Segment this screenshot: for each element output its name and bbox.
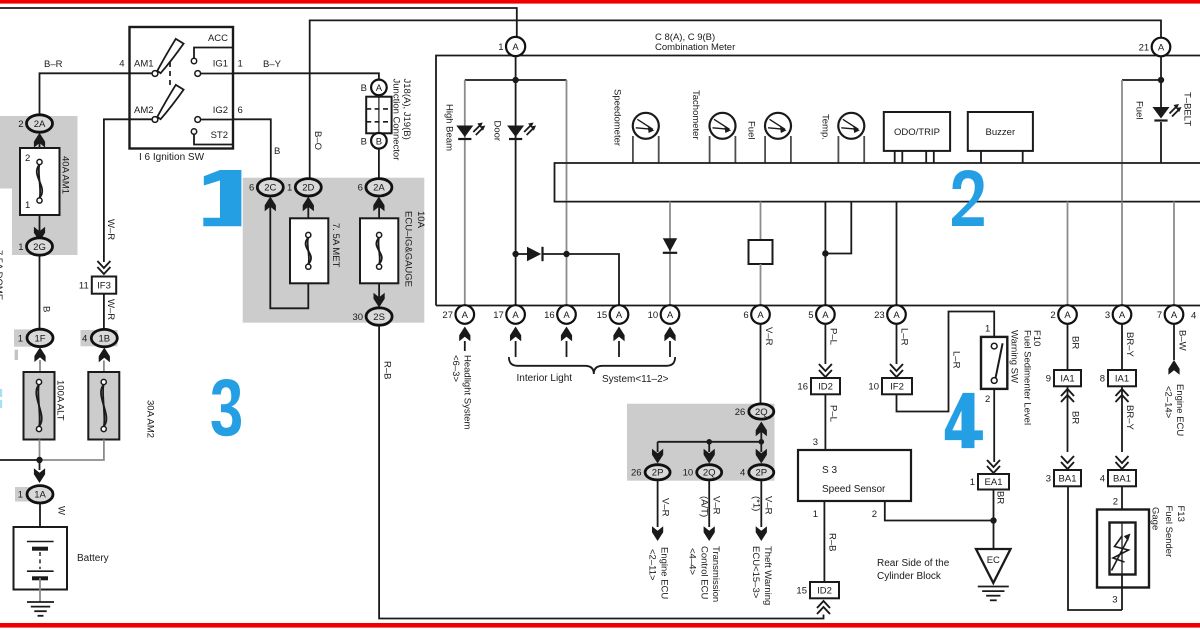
svg-text:Engine ECU: Engine ECU	[1174, 384, 1185, 436]
svg-text:Rear Side of the: Rear Side of the	[877, 558, 950, 569]
svg-text:10: 10	[683, 468, 694, 479]
label W-R (lower)	[105, 299, 116, 320]
svg-text:A: A	[376, 83, 383, 94]
svg-text:21: 21	[1139, 43, 1150, 54]
ignition ACC contact	[191, 48, 233, 64]
meter pin 10 circle	[648, 305, 680, 324]
shading behind 1F label	[14, 329, 31, 346]
wire pin10 drop	[669, 202, 671, 307]
stray gray mark	[15, 350, 18, 360]
ODO/TRIP pins	[895, 151, 934, 163]
svg-text:10: 10	[648, 310, 659, 321]
junction IF2 box (10)	[868, 378, 912, 394]
label W-R (upper)	[105, 219, 116, 240]
EC ground triangle	[976, 549, 1011, 583]
arrow into 2C	[265, 197, 276, 212]
label V-R (A/T)	[699, 496, 722, 517]
svg-text:A: A	[1119, 310, 1126, 321]
svg-text:I 6 Ignition SW: I 6 Ignition SW	[139, 152, 205, 163]
arrow into 2P (26)	[652, 449, 663, 464]
svg-text:Speed Sensor: Speed Sensor	[822, 484, 886, 495]
illumination resistor box (pin6)	[749, 240, 773, 264]
svg-text:9: 9	[1046, 374, 1051, 385]
T-BELT warning LED	[1153, 104, 1182, 121]
svg-text:2Q: 2Q	[755, 407, 768, 418]
svg-text:1: 1	[813, 509, 818, 520]
battery box	[14, 527, 68, 590]
battery ground symbol	[27, 602, 54, 616]
chevrons into IF3	[97, 261, 110, 274]
wire 1F to fuse 100A	[39, 360, 41, 372]
meter pin 16 circle	[544, 305, 576, 324]
label Engine ECU <2-11>	[647, 547, 670, 599]
junction dot branch right	[759, 439, 765, 445]
speedometer gauge	[633, 113, 659, 139]
svg-text:Fuel Sender: Fuel Sender	[1163, 506, 1174, 558]
label B (2G-1F)	[41, 306, 52, 312]
label 7.5A MET	[330, 223, 341, 268]
svg-text:Fuel Sedimenter Level: Fuel Sedimenter Level	[1022, 330, 1033, 425]
wire EA1 to EC node	[993, 490, 995, 550]
svg-text:T–BELT: T–BELT	[1182, 92, 1193, 126]
svg-text:2D: 2D	[302, 183, 314, 194]
wire fuse 10A to 2S	[378, 283, 380, 297]
svg-text:Theft Warning: Theft Warning	[762, 546, 773, 605]
junction node above 1A	[36, 457, 42, 463]
svg-text:BR: BR	[995, 491, 1006, 504]
svg-text:(A/T): (A/T)	[699, 496, 710, 517]
ignition label IG1	[213, 59, 228, 70]
svg-text:1: 1	[18, 242, 23, 253]
svg-text:Interior Light: Interior Light	[517, 373, 573, 384]
clipped pin 4 label	[1191, 311, 1196, 322]
svg-text:BR–Y: BR–Y	[1124, 405, 1135, 430]
svg-text:BA1: BA1	[1113, 474, 1131, 485]
wire node to 1A	[39, 460, 41, 470]
battery dashed link	[39, 552, 41, 569]
svg-text:System<11–2>: System<11–2>	[602, 374, 669, 385]
wire S3 pin2 to EC node	[885, 501, 994, 521]
svg-text:B: B	[41, 306, 52, 312]
arrow out of pin27	[459, 327, 470, 352]
svg-text:8: 8	[1100, 374, 1105, 385]
meter pin 17 circle	[493, 305, 525, 324]
svg-text:W: W	[56, 506, 67, 515]
meter pin 7 circle	[1157, 305, 1183, 324]
label 100A ALT	[55, 380, 66, 421]
junction dot pin1 bus	[512, 77, 518, 83]
svg-text:A: A	[563, 310, 570, 321]
wire tachometer legs	[710, 136, 736, 163]
svg-text:Fuel: Fuel	[1134, 101, 1145, 119]
blue step number 3	[211, 379, 241, 436]
wire B from off-page to meter pin 1	[0, 8, 517, 37]
wire T-BELT lamp lower	[1160, 122, 1162, 163]
wire pin5 stub	[825, 202, 851, 254]
svg-text:4: 4	[1191, 311, 1196, 322]
label Speedometer	[612, 89, 623, 146]
wire pin6 drop upper	[760, 202, 762, 241]
svg-text:4: 4	[82, 334, 87, 345]
connector 2G	[18, 238, 52, 255]
svg-text:7: 7	[1157, 310, 1162, 321]
arrow into 1A	[34, 468, 45, 483]
junction dot EC node	[990, 517, 996, 523]
svg-text:Temp.: Temp.	[820, 114, 831, 140]
wire battery to ground	[39, 578, 41, 602]
interior light brace	[509, 357, 675, 374]
svg-text:Warning SW: Warning SW	[1009, 330, 1020, 383]
svg-text:26: 26	[735, 407, 746, 418]
ignition AM1 contact	[152, 71, 158, 77]
label Engine ECU <2-14>	[1163, 384, 1186, 436]
chevrons into BA1 3	[1061, 456, 1074, 469]
ignition AM2 lever	[157, 85, 183, 119]
junction EA1 box (1)	[970, 474, 1009, 490]
decorative top red border	[0, 0, 1200, 4]
svg-text:7.5A DOME: 7.5A DOME	[0, 250, 4, 300]
chevrons out IA1 8	[1116, 389, 1129, 402]
svg-text:7. 5A MET: 7. 5A MET	[330, 223, 341, 268]
chevrons into ID2 16	[819, 364, 832, 377]
wire BA1 3 to fuel sender	[1068, 486, 1122, 610]
junction ID2 box (15)	[796, 582, 839, 598]
wire 2Q to branch bus	[760, 427, 762, 442]
svg-text:1: 1	[498, 42, 503, 53]
label T-BELT	[1182, 92, 1193, 126]
label System <11-2>	[602, 374, 669, 385]
label R-B (speed)	[827, 533, 838, 551]
svg-text:(*1): (*1)	[751, 496, 762, 511]
wire IA1 to BA1 (BR-Y)	[1121, 386, 1123, 452]
label P-L (upper)	[828, 328, 839, 345]
junction IA1 box (9)	[1046, 370, 1081, 386]
svg-text:A: A	[616, 310, 623, 321]
fuse-block shading (ECU-IG)	[243, 178, 425, 323]
ignition ST2 contact	[191, 129, 233, 145]
arrow into 2A (ECU-IG)	[373, 197, 384, 212]
svg-text:B: B	[376, 136, 382, 147]
connector 1B	[82, 329, 117, 346]
svg-text:<2–11>: <2–11>	[647, 549, 658, 581]
meter pin 27 circle	[442, 305, 474, 324]
svg-text:16: 16	[797, 382, 808, 393]
wire B from IG2 to 2C	[233, 119, 271, 179]
svg-text:2Q: 2Q	[703, 468, 716, 479]
label BR-Y (lower)	[1124, 405, 1135, 430]
junction ID2 box (16)	[797, 378, 840, 394]
F10 pin 1 number	[985, 324, 990, 335]
chevrons into IF2 10	[890, 364, 903, 377]
svg-text:3: 3	[813, 437, 818, 448]
wire 2A to fuse 40A	[39, 138, 41, 148]
svg-text:B: B	[274, 146, 280, 157]
svg-text:Headlight System: Headlight System	[462, 355, 473, 430]
connector 1F	[18, 329, 53, 346]
S3 pin 1 number	[813, 509, 818, 520]
wire speedometer legs	[633, 136, 659, 163]
chevrons into ID2 15	[817, 601, 830, 614]
meter pin 21 circle	[1139, 38, 1171, 57]
temp gauge	[838, 113, 864, 139]
svg-text:IG1: IG1	[213, 59, 228, 70]
junction dot pin5	[822, 250, 828, 256]
junction IF3 box	[79, 277, 116, 294]
label BR (upper)	[1070, 336, 1081, 349]
F13 fuel sender inner box	[1110, 523, 1136, 575]
F13 sender element	[1112, 523, 1131, 575]
junction dot branch mid	[706, 439, 712, 445]
wire pin3 drop	[1121, 202, 1123, 307]
battery plate long bottom	[27, 570, 54, 572]
chevrons into EA1	[987, 460, 1000, 473]
junction BA1 box (4)	[1100, 470, 1136, 486]
svg-text:2: 2	[1113, 497, 1118, 508]
svg-text:2C: 2C	[264, 183, 276, 194]
combination meter outline	[436, 56, 1200, 306]
svg-text:Engine ECU: Engine ECU	[659, 547, 670, 599]
diode (door/15A)	[527, 247, 543, 261]
svg-text:1: 1	[18, 333, 23, 344]
label 30A AM2	[145, 400, 156, 438]
junction connector J18/J19 bottom pin B	[361, 133, 387, 149]
wire IF3 to 1B	[103, 294, 105, 330]
connector 2D	[287, 179, 321, 196]
arrow out of pin17	[510, 327, 521, 358]
svg-text:W–R: W–R	[105, 219, 116, 240]
svg-text:Fuel: Fuel	[746, 121, 757, 139]
svg-text:W–R: W–R	[105, 299, 116, 320]
F10 pin 2 number	[985, 394, 990, 405]
svg-text:27: 27	[442, 310, 453, 321]
junction IA1 box (8)	[1100, 370, 1136, 386]
svg-text:1B: 1B	[98, 334, 110, 345]
arrow into 1F	[34, 347, 45, 362]
svg-text:EA1: EA1	[985, 477, 1003, 488]
wire pin3 through bar	[1121, 164, 1123, 201]
wire junction connector to 2A	[378, 149, 380, 179]
svg-text:IF2: IF2	[890, 382, 904, 393]
junction dot pin21 bus	[1158, 77, 1164, 83]
arrow into 1B	[99, 348, 110, 363]
meter lamp bus wire	[465, 79, 567, 81]
wire pin7 drop	[1173, 202, 1175, 307]
wire fuel lamp line	[1121, 80, 1123, 163]
svg-text:AM2: AM2	[134, 105, 154, 116]
wire W-R from AM2 down	[104, 119, 152, 262]
connector 2A (ECU-IG fuse)	[358, 179, 392, 196]
svg-text:4: 4	[740, 468, 745, 479]
label 40A AM1	[60, 156, 71, 194]
svg-text:2: 2	[985, 394, 990, 405]
svg-text:Gage: Gage	[1150, 507, 1161, 530]
ignition label AM2	[134, 105, 154, 116]
ignition label IG2	[213, 105, 228, 116]
svg-text:4: 4	[1100, 474, 1105, 485]
shading behind 1B label	[81, 330, 118, 346]
svg-text:L–R: L–R	[951, 351, 962, 369]
label Rear Side of the Cylinder Block	[877, 558, 950, 582]
svg-text:<6–3>: <6–3>	[450, 355, 461, 382]
label R-B (2S)	[382, 361, 393, 379]
svg-text:Door: Door	[492, 121, 503, 142]
svg-text:5: 5	[808, 310, 813, 321]
wire temp gauge legs	[838, 136, 864, 163]
arrow out of pin15	[613, 327, 624, 358]
wire BA1 4 to F13	[1121, 486, 1123, 522]
label B (2C wire)	[274, 146, 280, 157]
svg-text:2: 2	[18, 119, 23, 130]
svg-text:2A: 2A	[373, 183, 385, 194]
svg-text:IA1: IA1	[1115, 374, 1129, 385]
door lamp junction dot	[512, 251, 518, 257]
svg-text:Speedometer: Speedometer	[612, 89, 623, 146]
svg-text:B–O: B–O	[312, 131, 323, 150]
instrument panel bus bar	[555, 163, 1200, 202]
label B-Y	[263, 59, 282, 70]
svg-text:A: A	[512, 310, 519, 321]
arrow into 2Q (10)	[704, 449, 715, 464]
label S 3 Speed Sensor	[822, 465, 886, 495]
label BR (EA1)	[995, 491, 1006, 504]
wire 2G to 1F	[39, 255, 41, 329]
svg-text:2A: 2A	[34, 119, 46, 130]
wire F13 to node	[1121, 575, 1123, 611]
battery plate short bottom	[32, 576, 48, 580]
fuse 7.5A MET box	[290, 218, 328, 283]
wire pin6 drop lower	[760, 264, 762, 306]
svg-text:B: B	[361, 137, 367, 148]
fuse 7.5A MET element	[306, 232, 311, 269]
svg-text:ST2: ST2	[211, 130, 228, 141]
chevrons into BA1 4	[1116, 456, 1129, 469]
arrow into 2G	[34, 227, 45, 242]
svg-text:Combination Meter: Combination Meter	[655, 42, 735, 53]
wire B-R from 2A to AM1	[40, 73, 153, 114]
label F10 Fuel Sedimenter Level Warning SW	[1009, 330, 1043, 425]
svg-text:A: A	[512, 42, 519, 53]
svg-text:R–B: R–B	[827, 533, 838, 551]
decorative bottom red border	[0, 623, 1200, 628]
fuse-block shading (top-left)	[0, 116, 78, 255]
svg-text:J18(A), J19(B): J18(A), J19(B)	[401, 79, 412, 140]
svg-text:1: 1	[238, 59, 243, 70]
svg-text:A: A	[1171, 310, 1178, 321]
svg-text:30: 30	[353, 312, 364, 323]
label Door	[492, 121, 503, 142]
wire from fuse 2D to meter pin 21	[310, 20, 1161, 178]
ignition AM2 contact	[152, 117, 158, 123]
svg-text:6: 6	[358, 183, 363, 194]
fuse 30A AM2 element	[101, 379, 106, 431]
meter pin 1 circle	[498, 37, 525, 56]
wire pin5 drop	[824, 202, 826, 307]
wire 2P to Theft Warning ECU	[760, 481, 762, 528]
svg-text:BR: BR	[1070, 336, 1081, 349]
caption I 6 Ignition SW	[139, 152, 205, 163]
clipped cyan marks at left edge	[0, 389, 2, 408]
svg-text:B–Y: B–Y	[263, 59, 282, 70]
connector 2C	[249, 179, 283, 196]
label P-L (lower)	[828, 405, 839, 422]
wire door lamp	[515, 80, 517, 306]
pin number 4 (AM1)	[119, 59, 124, 70]
junction dot diode/pin16	[563, 251, 569, 257]
wire 2D to fuse MET	[307, 202, 309, 219]
blue step number 2	[952, 170, 984, 226]
wire fuse 100A to node	[39, 440, 41, 461]
connector 2P (26)	[631, 465, 670, 480]
label L-R (to switch)	[951, 351, 962, 369]
svg-text:23: 23	[874, 310, 885, 321]
svg-text:10A: 10A	[415, 211, 426, 229]
svg-text:2P: 2P	[755, 468, 767, 479]
svg-text:1: 1	[18, 490, 23, 501]
fuel gauge	[765, 113, 791, 139]
wire fuse to 2G	[39, 215, 41, 231]
wire ID2 to S3	[824, 394, 826, 450]
shading behind 1A label	[15, 487, 31, 502]
wire high beam lamp	[464, 80, 466, 306]
svg-text:P–L: P–L	[828, 328, 839, 345]
wire fuel gauge legs	[765, 136, 791, 163]
fuse 30A AM2 box	[88, 372, 119, 440]
S3 pin 2 number	[872, 509, 877, 520]
svg-text:4: 4	[119, 59, 124, 70]
wire B-Y from IG1 to junction connector	[233, 73, 379, 79]
fuse 40A AM1 element	[37, 159, 42, 203]
svg-text:17: 17	[493, 310, 504, 321]
fuse 40A AM1 box	[20, 148, 60, 215]
F13 pin 3 number	[1112, 595, 1117, 606]
wire branch to 2P left	[657, 442, 659, 452]
label V-R (engine)	[660, 498, 671, 517]
svg-text:IA1: IA1	[1060, 374, 1074, 385]
svg-text:10: 10	[868, 382, 879, 393]
fuse 100A ALT element	[36, 379, 41, 431]
svg-text:2S: 2S	[373, 312, 385, 323]
wire 2A to fuse 10A	[378, 202, 380, 219]
wire pin16 through bar	[566, 164, 568, 201]
high beam LED	[456, 123, 485, 140]
F13 fuel sender outer box	[1097, 510, 1149, 588]
ignition label AM1	[134, 59, 154, 70]
junction connector J18/J19 box	[366, 97, 391, 134]
label B-R	[44, 59, 63, 70]
svg-text:2: 2	[25, 153, 30, 164]
label Fuel (gauge)	[746, 121, 757, 139]
diode branch wire	[516, 254, 619, 306]
svg-text:Control ECU: Control ECU	[699, 546, 710, 599]
svg-text:Transmission: Transmission	[710, 546, 721, 602]
svg-text:100A ALT: 100A ALT	[55, 380, 66, 421]
svg-text:BA1: BA1	[1059, 474, 1077, 485]
wire P-L pin5 to ID2	[824, 324, 826, 364]
svg-text:2: 2	[1050, 310, 1055, 321]
wire BR pin2 to IA1	[1067, 324, 1069, 370]
meter pin 2 circle	[1050, 305, 1076, 324]
svg-text:15: 15	[597, 310, 608, 321]
label B-O	[312, 131, 323, 150]
battery plate long top	[27, 541, 54, 543]
svg-text:1: 1	[287, 183, 292, 194]
wire F10 to EA1	[993, 389, 995, 462]
label Tachometer	[690, 90, 701, 140]
EC ground symbol	[978, 587, 1009, 601]
svg-text:A: A	[1158, 43, 1165, 54]
blue step number 1	[203, 170, 241, 226]
svg-text:ECU–IG&GAUGE: ECU–IG&GAUGE	[403, 211, 414, 287]
